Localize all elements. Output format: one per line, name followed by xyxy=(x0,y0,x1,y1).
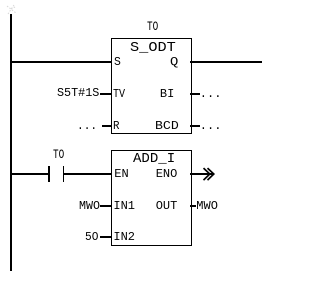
value 50 on IN2 xyxy=(85,231,98,243)
contact T0 right bar xyxy=(63,166,65,182)
wire IN2 stub xyxy=(100,236,111,238)
label S_ODT title xyxy=(130,41,176,55)
wire OUT stub xyxy=(190,205,196,207)
left power rail xyxy=(10,14,12,271)
pin BI xyxy=(160,88,174,100)
value ... on BI xyxy=(200,88,222,100)
wire BCD stub xyxy=(190,125,200,127)
pin IN2 xyxy=(113,231,135,243)
value ... on R xyxy=(77,120,97,132)
pin Q xyxy=(170,56,178,68)
pin BCD xyxy=(155,120,179,132)
artifact smudge at rail top xyxy=(5,4,19,16)
pin R xyxy=(113,120,119,132)
pin EN xyxy=(114,168,128,180)
pin OUT xyxy=(156,200,178,212)
wire TV stub xyxy=(100,93,111,95)
value S5T#1S on TV xyxy=(57,87,99,99)
value ... on BCD xyxy=(200,120,222,132)
pin S xyxy=(114,56,121,68)
pin ENO xyxy=(156,168,178,180)
wire IN1 stub xyxy=(100,205,111,207)
wire contact to EN input xyxy=(64,173,111,175)
wire rung1 rail to S input xyxy=(10,61,111,63)
wire R stub xyxy=(102,125,111,127)
pin IN1 xyxy=(113,200,135,212)
label ADD_I title xyxy=(133,153,175,167)
wire ENO output xyxy=(190,173,213,175)
pin TV xyxy=(113,88,125,100)
open branch arrow xyxy=(200,165,218,183)
node T0 label above timer box xyxy=(147,20,158,33)
node T0 label above contact xyxy=(53,148,64,161)
block U2 ADD_I xyxy=(111,150,192,246)
contact T0 left bar xyxy=(48,166,50,182)
timer box U1 S_ODT xyxy=(111,38,192,134)
wire Q output xyxy=(190,61,262,63)
value MW0 on IN1 xyxy=(79,200,100,212)
wire BI stub xyxy=(190,93,200,95)
value MW0 on OUT xyxy=(196,200,218,212)
wire rung2 rail to contact xyxy=(10,173,49,175)
